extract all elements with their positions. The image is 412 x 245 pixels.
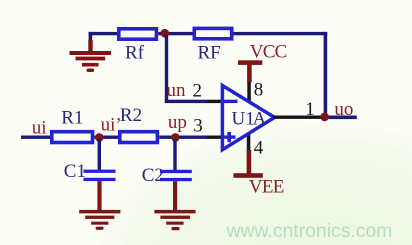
svg-text:3: 3	[193, 116, 203, 137]
resistor RF	[193, 27, 234, 41]
svg-text:www.cntronics.com: www.cntronics.com	[226, 220, 393, 242]
wire C1 to ground	[97, 181, 101, 211]
junction node ui'	[95, 133, 104, 142]
resistor R2	[118, 130, 159, 144]
svg-text:VEE: VEE	[249, 176, 284, 197]
wire up node down to C2	[173, 139, 176, 170]
svg-text:R2: R2	[120, 105, 142, 126]
wire Rf to RF	[158, 32, 192, 35]
svg-text:8: 8	[254, 80, 264, 101]
non-inverting input stub (+)	[223, 135, 236, 138]
svg-text:up: up	[168, 112, 187, 133]
svg-text:VCC: VCC	[250, 42, 287, 63]
svg-text:1: 1	[305, 99, 315, 120]
capacitor C2	[160, 170, 192, 181]
junction node output	[320, 113, 329, 122]
wire RF to output corner	[234, 32, 328, 117]
wire top rail from ground to Rf	[89, 32, 119, 43]
ground (top-left)	[70, 40, 112, 72]
wire C2 to ground	[173, 181, 177, 210]
svg-text:uo: uo	[334, 99, 353, 120]
svg-text:2: 2	[193, 80, 203, 101]
resistor Rf	[117, 27, 158, 41]
wire pin 3 stub	[207, 136, 223, 139]
wire ui' node down to C1	[98, 139, 101, 170]
wire feedback down to pin 2	[165, 35, 207, 103]
svg-text:RF: RF	[198, 42, 221, 63]
resistor R1	[50, 130, 94, 144]
pin 8 wire (VCC to op-amp)	[247, 80, 251, 103]
junction node J1	[161, 29, 170, 38]
ground (below C2)	[154, 210, 195, 230]
ground (below C1)	[79, 210, 120, 230]
svg-text:Rf: Rf	[125, 43, 145, 64]
wire pin 2 stub	[207, 100, 223, 103]
op-amp U1	[222, 86, 274, 150]
junction node up	[171, 133, 180, 142]
power symbol VCC	[238, 60, 262, 82]
svg-text:R1: R1	[61, 108, 83, 129]
wire R1 to R2	[94, 136, 118, 139]
pin 4 wire (op-amp to VEE)	[247, 133, 251, 152]
svg-text:C2: C2	[142, 165, 164, 186]
wire R2 to op-amp	[159, 136, 207, 139]
capacitor C1	[84, 170, 116, 182]
inverting input stub (-)	[223, 100, 238, 103]
svg-text:ui: ui	[32, 117, 47, 138]
wire output to uo	[325, 116, 357, 120]
svg-text:U1: U1	[232, 108, 255, 129]
svg-text:C1: C1	[64, 161, 86, 182]
svg-text:4: 4	[254, 138, 264, 159]
power symbol VEE	[233, 150, 262, 178]
wire input ui	[21, 136, 50, 139]
svg-text:un: un	[167, 80, 187, 101]
svg-text:A: A	[253, 108, 267, 129]
wire output pin 1	[273, 116, 325, 119]
